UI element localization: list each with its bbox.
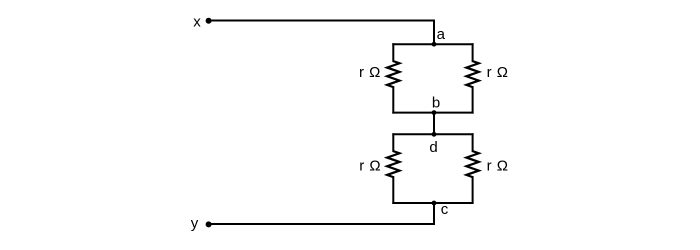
svg-text:y: y [191,215,199,232]
svg-text:b: b [432,95,440,112]
resistor R2 zigzag [466,61,478,87]
resistor R1 leads [392,44,394,61]
svg-text:r Ω: r Ω [359,64,380,81]
svg-text:r Ω: r Ω [359,158,380,175]
resistor R2 leads [472,44,474,61]
terminal y dot [206,221,212,227]
terminal x dot [206,18,212,24]
wire from terminal x to node a [211,21,434,45]
svg-text:c: c [441,201,449,218]
wire rail node c [393,202,472,204]
wire rail node d [393,133,472,135]
resistor R3 zigzag [387,151,399,177]
resistor R3 leads [392,134,394,151]
resistor R4 zigzag [466,151,478,177]
node c dot [432,201,437,206]
svg-text:d: d [429,139,437,156]
svg-text:a: a [437,26,446,43]
node d dot [432,132,437,137]
svg-text:x: x [193,14,201,31]
node a dot [432,42,437,47]
wire node b to node d [433,113,435,135]
wire rail node b [393,112,472,114]
wire from node c to terminal y [211,203,434,224]
svg-text:r Ω: r Ω [487,64,508,81]
svg-text:r Ω: r Ω [487,158,508,175]
node b dot [432,110,437,115]
resistor R1 zigzag [387,61,399,87]
resistor R4 leads [472,134,474,151]
wire top rail node a [393,43,472,45]
